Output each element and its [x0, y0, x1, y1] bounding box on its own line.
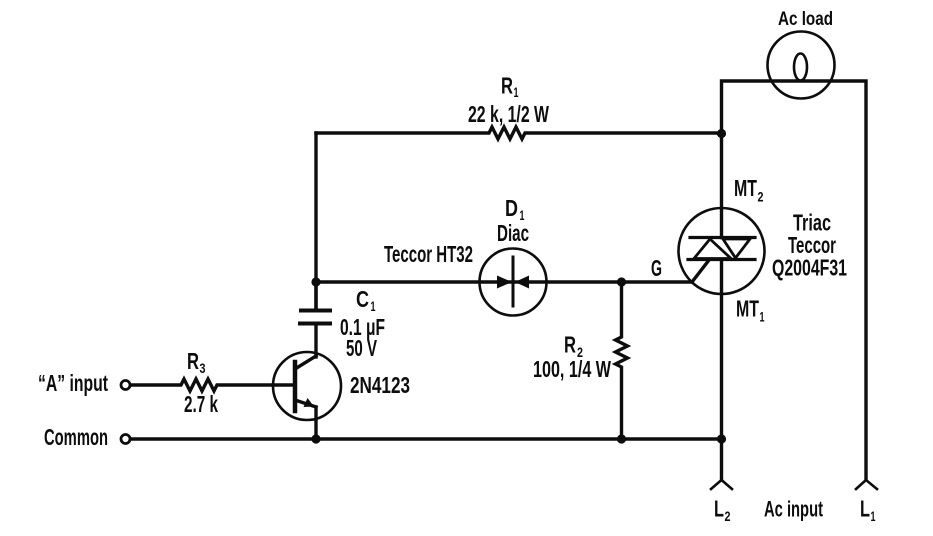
- svg-text:Ac load: Ac load: [778, 9, 833, 30]
- transistor Q1 emitter lead: [314, 407, 317, 439]
- junction node R1 right / triac MT2: [717, 129, 726, 138]
- capacitor C1 plates: [301, 309, 330, 313]
- triac right triangle (down): [723, 239, 750, 258]
- svg-text:3: 3: [200, 360, 206, 376]
- junction node at C1/collector top: [311, 277, 320, 286]
- terminal circle A input: [121, 381, 130, 390]
- wire left vertical from top wire to mid node: [314, 133, 317, 310]
- junction node emitter-common: [311, 434, 320, 443]
- junction node diac-R2-gate: [617, 277, 626, 286]
- terminal circle Common: [121, 435, 130, 444]
- wire R2 branch vertical: [616, 282, 628, 439]
- svg-text:L: L: [860, 496, 870, 522]
- wire top horizontal with resistor R1 zigzag: [316, 127, 722, 139]
- wire A input to transistor base: [131, 379, 294, 391]
- svg-text:MT: MT: [734, 175, 757, 201]
- wire ac load loop: up, across through lamp, down to L1 fork: [722, 81, 867, 480]
- triac circle: [679, 208, 765, 294]
- lamp filament loop: [794, 54, 807, 81]
- transistor Q1 emitter diagonal: [295, 400, 316, 407]
- wire common bottom horizontal: [131, 437, 722, 440]
- svg-text:100, 1/4 W: 100, 1/4 W: [533, 356, 611, 382]
- diac D1 center bar: [512, 257, 515, 306]
- triac gate diagonal: [692, 260, 709, 282]
- terminal fork L1: [856, 480, 877, 489]
- svg-text:C: C: [356, 286, 369, 312]
- wire mid horizontal to diac and triac gate: [316, 280, 692, 283]
- svg-text:2: 2: [758, 189, 764, 205]
- capacitor C1 top lead: [314, 282, 317, 310]
- svg-text:2N4123: 2N4123: [350, 372, 410, 398]
- svg-text:R: R: [564, 332, 576, 358]
- svg-text:G: G: [651, 255, 662, 281]
- triac left triangle (up): [694, 239, 731, 259]
- svg-text:Ac input: Ac input: [764, 497, 823, 522]
- svg-text:D: D: [505, 195, 518, 221]
- diac D1 circle: [480, 249, 547, 316]
- diac D1 left arrow: [497, 276, 512, 289]
- transistor Q1 base bar: [293, 362, 298, 411]
- capacitor C1 bottom lead to collector: [314, 324, 317, 357]
- svg-text:Common: Common: [44, 424, 108, 450]
- transistor Q1 circle: [273, 352, 341, 420]
- svg-text:50 V: 50 V: [346, 335, 377, 361]
- junction node R2-common: [617, 434, 626, 443]
- svg-text:R: R: [501, 73, 513, 99]
- svg-text:Teccor HT32: Teccor HT32: [384, 241, 473, 267]
- svg-text:Diac: Diac: [497, 220, 529, 246]
- svg-text:“A” input: “A” input: [38, 370, 108, 396]
- svg-text:R: R: [187, 348, 199, 374]
- junction node MT1-common: [717, 434, 726, 443]
- triac top bar: [690, 236, 755, 239]
- svg-text:1: 1: [871, 508, 876, 524]
- lamp (Ac load) circle: [768, 32, 835, 99]
- svg-text:22 k, 1/2 W: 22 k, 1/2 W: [468, 101, 549, 127]
- svg-text:1: 1: [514, 84, 519, 100]
- svg-text:Q2004F31: Q2004F31: [772, 255, 847, 281]
- diac D1 right arrow: [515, 276, 529, 289]
- wire triac MT1 lead down to fork: [720, 260, 723, 481]
- svg-text:2: 2: [725, 508, 731, 524]
- wire triac MT2 lead: [720, 133, 723, 238]
- svg-text:MT: MT: [736, 296, 759, 322]
- svg-text:1: 1: [760, 309, 765, 325]
- svg-text:2.7 k: 2.7 k: [184, 391, 218, 417]
- triac bottom bar: [688, 258, 755, 261]
- svg-text:1: 1: [371, 298, 376, 314]
- terminal fork L2: [711, 480, 732, 489]
- svg-text:L: L: [714, 496, 724, 522]
- transistor Q1 emitter arrowhead: [304, 398, 315, 407]
- transistor Q1 collector diagonal: [295, 356, 316, 369]
